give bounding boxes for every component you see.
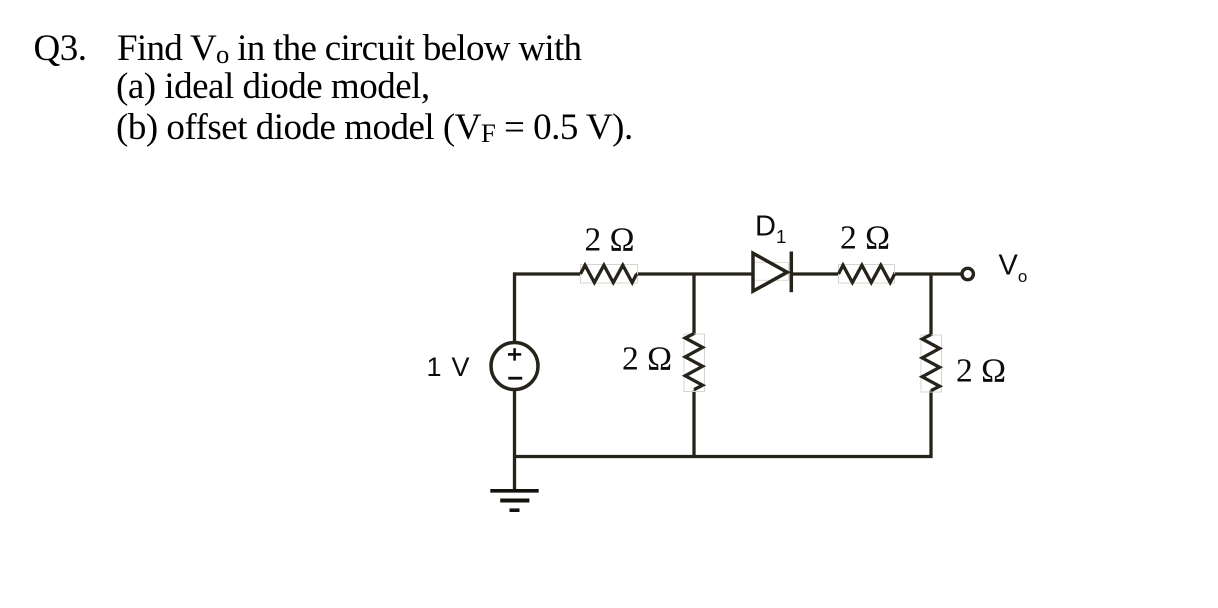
svg-text:1 V: 1 V — [427, 352, 470, 382]
svg-text:2 Ω: 2 Ω — [956, 353, 1006, 390]
question text line 2 — [116, 68, 430, 106]
node Vo output terminal circle — [962, 268, 973, 279]
resistor R4 zigzag (2 ohm, right vertical) — [922, 335, 939, 391]
resistor R2 zigzag (2 ohm, middle vertical) — [685, 334, 702, 390]
question text line 1 — [34, 30, 87, 68]
voltage source V1 plus sign — [508, 348, 521, 360]
resistor R3 body box (2 ohm, top right) — [839, 265, 895, 284]
wire left branch lower (source - to ground) — [513, 390, 516, 491]
wire right branch lower — [929, 391, 932, 459]
diode D1 body box — [753, 262, 789, 280]
wire middle branch upper — [692, 274, 695, 335]
svg-text:D1: D1 — [755, 210, 786, 246]
resistor R3 zigzag (2 ohm, top right) — [839, 265, 895, 282]
voltage source V1 minus sign — [508, 377, 522, 380]
resistor R1 body box (2 ohm, top left) — [581, 265, 638, 284]
wire bottom rail — [513, 455, 933, 458]
wire top-left horizontal segment — [513, 272, 581, 275]
ground symbol — [490, 491, 538, 510]
svg-text:2 Ω: 2 Ω — [840, 220, 890, 257]
resistor R4 body box (2 ohm, right vertical) — [921, 335, 942, 392]
wire top middle segment (R1 to diode) — [636, 272, 753, 275]
wire left branch upper (top wire to source +) — [513, 272, 516, 342]
diode D1 — [753, 252, 791, 293]
wire top segment (diode to R3) — [791, 272, 839, 275]
svg-text:2 Ω: 2 Ω — [622, 341, 672, 378]
voltage source V1 circle — [491, 343, 538, 390]
wire right branch upper — [929, 274, 932, 336]
resistor R1 zigzag (2 ohm, top left) — [581, 265, 637, 282]
question text line 3 — [116, 109, 633, 152]
wire top-right segment (R3 to output terminal) — [893, 272, 961, 275]
svg-text:2 Ω: 2 Ω — [585, 222, 635, 259]
svg-text:Vo: Vo — [999, 249, 1028, 286]
wire middle branch lower — [692, 391, 695, 457]
resistor R2 body box (2 ohm, middle vertical) — [684, 334, 705, 392]
